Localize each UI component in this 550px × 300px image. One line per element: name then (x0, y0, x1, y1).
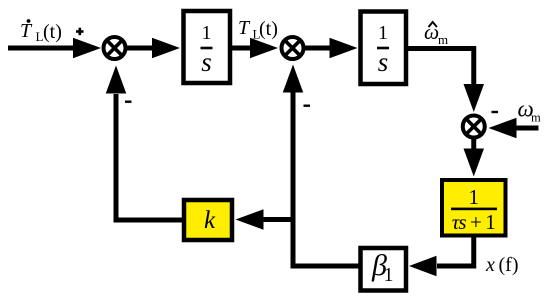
svg-text:1: 1 (378, 22, 388, 44)
svg-text:s: s (201, 47, 212, 77)
svg-text:s: s (378, 47, 389, 77)
svg-text:(f): (f) (499, 254, 519, 276)
svg-text:x: x (485, 254, 495, 276)
svg-text:1: 1 (202, 22, 212, 44)
svg-text:T: T (20, 20, 33, 42)
svg-text:(t): (t) (259, 18, 278, 40)
svg-text:τs + 1: τs + 1 (452, 210, 496, 234)
svg-text:m: m (438, 32, 448, 47)
svg-text:m: m (531, 111, 541, 125)
svg-text:(t): (t) (43, 21, 62, 43)
svg-text:1: 1 (384, 264, 394, 286)
svg-text:T: T (238, 17, 251, 39)
svg-text:k: k (204, 207, 216, 234)
svg-text:1: 1 (468, 185, 479, 209)
